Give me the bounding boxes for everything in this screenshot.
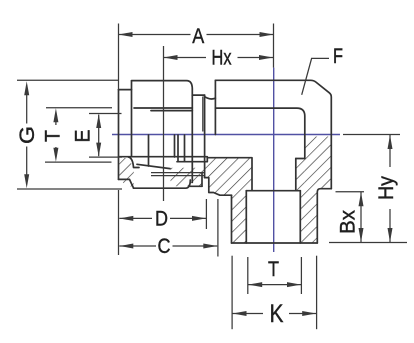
svg-text:Hx: Hx xyxy=(212,47,232,70)
svg-text:F: F xyxy=(333,45,343,68)
svg-text:D: D xyxy=(155,208,168,231)
svg-text:G: G xyxy=(16,126,39,144)
svg-text:T: T xyxy=(42,130,65,142)
svg-text:Bx: Bx xyxy=(337,210,360,234)
svg-text:Hy: Hy xyxy=(375,176,398,200)
svg-text:C: C xyxy=(158,235,171,258)
svg-text:A: A xyxy=(192,25,204,48)
svg-text:E: E xyxy=(72,130,95,143)
svg-text:K: K xyxy=(270,300,284,328)
svg-text:T: T xyxy=(268,258,279,281)
